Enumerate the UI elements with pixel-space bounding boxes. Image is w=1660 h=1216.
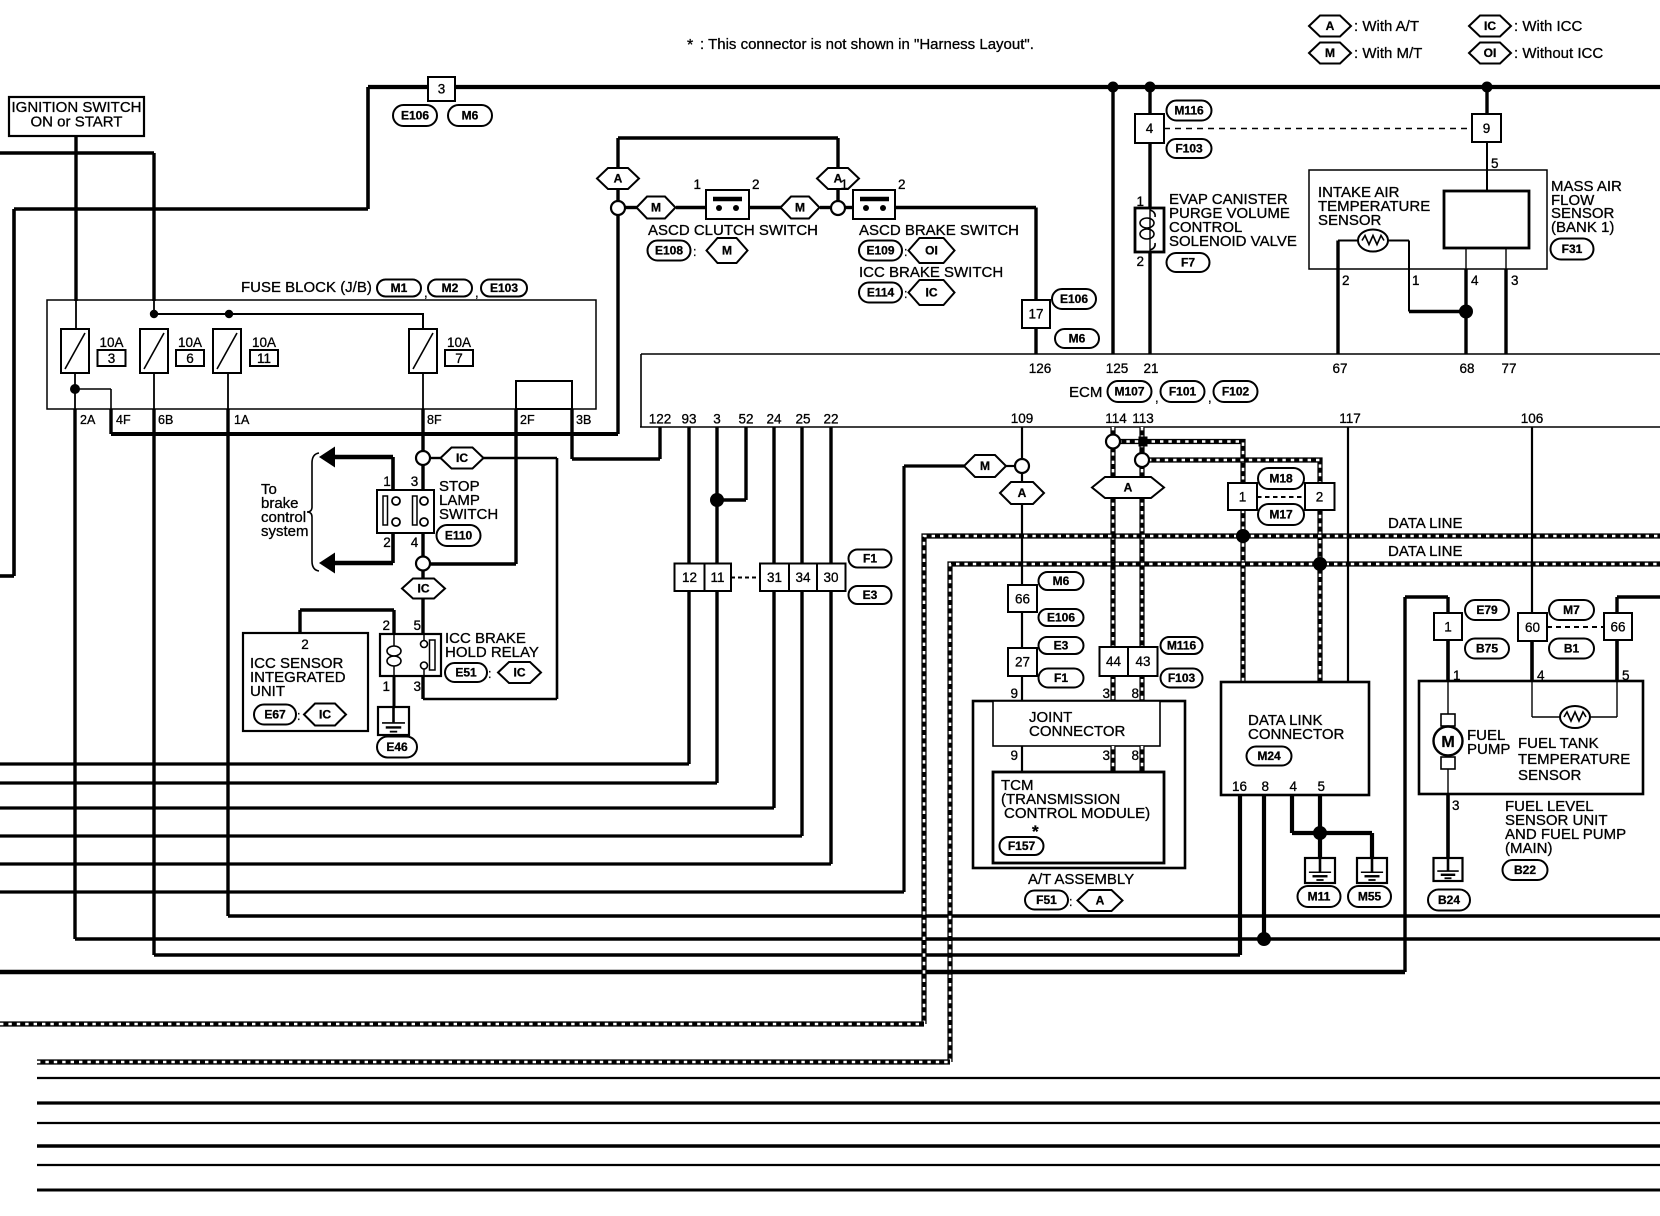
svg-text:M116: M116 <box>1174 104 1204 118</box>
svg-text:3: 3 <box>413 679 421 694</box>
hexagon A wide over 114/113 <box>1092 477 1164 498</box>
dashed link 60-66 <box>1547 626 1604 628</box>
connector box 12 <box>675 564 705 592</box>
hexagon IC for E51 <box>498 662 541 683</box>
svg-text:E67: E67 <box>264 708 286 722</box>
wire JC8 to TCM (shielded) <box>1139 746 1144 772</box>
svg-text:OI: OI <box>925 244 938 258</box>
wire IC hex to relay pin 5 <box>421 599 424 635</box>
connector box 1 (E79/B75) <box>1434 613 1462 640</box>
svg-text:F1: F1 <box>863 552 877 566</box>
svg-text:67: 67 <box>1332 361 1347 376</box>
svg-text:68: 68 <box>1459 361 1474 376</box>
svg-text:1: 1 <box>1444 620 1452 635</box>
wire box60 to fuel tank pin 4 <box>1530 641 1534 681</box>
svg-text:: With M/T: : With M/T <box>1354 45 1422 62</box>
svg-text:IC: IC <box>456 451 468 465</box>
svg-text:SOLENOID VALVE: SOLENOID VALVE <box>1169 233 1297 250</box>
svg-text:21: 21 <box>1143 361 1158 376</box>
hexagon IC stop lamp top <box>441 448 484 469</box>
svg-text:: This connector is not shown: : This connector is not shown in "Harnes… <box>700 36 1034 53</box>
crossover blob 113/114 <box>1139 437 1148 447</box>
svg-text:43: 43 <box>1135 654 1150 669</box>
svg-text:SENSOR: SENSOR <box>1518 767 1582 784</box>
IAT thermistor <box>1358 230 1388 252</box>
svg-text:M: M <box>651 201 661 215</box>
svg-text:16: 16 <box>1232 779 1247 794</box>
wire box27 to joint connector pin 9 <box>1021 676 1023 701</box>
wire IAT pin 1 joins MAF pin 4 <box>1388 240 1409 242</box>
connector oval E106 at 66 <box>1039 609 1084 626</box>
mass air flow sensor outer box <box>1309 170 1547 269</box>
svg-text:11: 11 <box>257 351 271 366</box>
svg-text:E3: E3 <box>863 588 878 602</box>
svg-text:5: 5 <box>413 618 421 633</box>
svg-text::: : <box>904 287 907 301</box>
svg-text:10A: 10A <box>447 335 471 350</box>
svg-text:E3: E3 <box>1054 639 1069 653</box>
svg-text:2F: 2F <box>520 413 535 427</box>
svg-text:E110: E110 <box>445 529 473 543</box>
EVAP canister purge volume control solenoid valve coil <box>1135 208 1164 252</box>
svg-text::: : <box>297 709 300 723</box>
ground M55 <box>1357 858 1387 883</box>
junction circle 109 <box>1015 459 1029 473</box>
svg-text:F7: F7 <box>1181 256 1195 270</box>
connector oval F1 at 27 <box>1039 669 1084 688</box>
svg-text:44: 44 <box>1106 654 1122 669</box>
fuel level sensor unit box <box>1419 681 1643 794</box>
connector box 30 <box>817 564 846 592</box>
wire MAF pin 3 to ECM 77 <box>1505 248 1507 269</box>
wire clutch switch pin2 to M hexagon <box>749 206 781 209</box>
wire bottom solid 1 <box>37 1077 1660 1079</box>
connector box 44 <box>1100 647 1129 676</box>
wire ECM 52 into pin3 wire <box>744 427 747 500</box>
wire feed to EVAP valve <box>1148 87 1151 114</box>
connector oval M2 <box>428 280 472 297</box>
connector oval F102 <box>1214 381 1258 402</box>
svg-text:DATA LINE: DATA LINE <box>1388 515 1462 532</box>
relay coil <box>393 634 395 646</box>
connector box 27 (E3/F1) <box>1008 648 1037 676</box>
connector box 31 <box>760 564 789 592</box>
connector oval E103 <box>481 280 527 297</box>
connector oval F157 <box>1000 837 1044 855</box>
connector oval M6 <box>448 105 492 126</box>
relay contact <box>423 634 425 641</box>
connector oval E109 <box>859 241 902 261</box>
svg-text:1: 1 <box>840 177 848 192</box>
wire from right edge to connector 66 <box>1617 595 1660 598</box>
hexagon M for E108 <box>707 238 748 263</box>
wire DATA LINE 1 (shielded) <box>924 536 1660 1024</box>
svg-text:IC: IC <box>319 708 331 722</box>
wire 1A to right edge y916 <box>228 914 1660 917</box>
connector box between 2F and 3B <box>516 381 572 409</box>
svg-text:4: 4 <box>1471 273 1479 288</box>
wire DATA LINE 2 (shielded) <box>950 564 1660 1062</box>
wire bottom solid 5 <box>37 1164 1660 1166</box>
svg-text:E46: E46 <box>386 740 408 754</box>
svg-text:F101: F101 <box>1169 385 1197 399</box>
svg-text:3: 3 <box>438 82 446 97</box>
svg-text:109: 109 <box>1011 411 1034 426</box>
svg-text:SWITCH: SWITCH <box>439 506 498 523</box>
svg-text:M18: M18 <box>1269 472 1293 486</box>
svg-text:B24: B24 <box>1438 893 1460 907</box>
svg-text:F31: F31 <box>1562 242 1583 256</box>
svg-text:10A: 10A <box>252 335 276 350</box>
svg-text:A: A <box>1326 19 1335 33</box>
wire ECM 3 wrap to left edge <box>715 427 718 783</box>
svg-text:31: 31 <box>767 570 782 585</box>
svg-text:8F: 8F <box>427 413 442 427</box>
connector box 34 <box>789 564 817 592</box>
svg-text:4: 4 <box>1146 121 1154 136</box>
ASCD brake switch E109 <box>853 190 895 219</box>
ground oval E46 <box>377 737 417 758</box>
hexagon A (with A/T) left <box>597 168 639 189</box>
svg-text:1: 1 <box>382 679 390 694</box>
svg-text::: : <box>693 245 696 259</box>
svg-text:*: * <box>687 37 693 54</box>
connector oval E114 <box>859 283 902 303</box>
hexagon A on 109 <box>1000 482 1044 504</box>
svg-text:TEMPERATURE: TEMPERATURE <box>1518 751 1630 768</box>
wire branch to 4F terminal <box>75 388 111 390</box>
hexagon A (with A/T) right <box>817 168 859 189</box>
junction circle 8F/stop lamp <box>416 451 430 465</box>
svg-text:2: 2 <box>1136 254 1144 269</box>
connector oval B1 <box>1549 639 1594 659</box>
svg-text:1: 1 <box>1412 273 1420 288</box>
svg-text:M7: M7 <box>1563 603 1580 617</box>
svg-text:F157: F157 <box>1008 839 1036 853</box>
connector oval E106 at 17 <box>1052 289 1096 309</box>
wire hexA to junction circle <box>616 189 619 201</box>
legend hexagon A = With A/T <box>1309 16 1351 37</box>
svg-text:A: A <box>1096 894 1105 908</box>
svg-text:3: 3 <box>1102 748 1110 763</box>
junction dot DATA LINE1 / DLC6 <box>1236 529 1250 543</box>
brace to brake control system <box>307 453 319 571</box>
wire 17 to ECM pin 126 <box>1034 328 1037 354</box>
svg-text:FUSE BLOCK (J/B): FUSE BLOCK (J/B) <box>241 279 372 296</box>
connector oval M116 <box>1167 101 1212 121</box>
hexagon OI for E109 <box>909 238 955 263</box>
wire ECM 113 (shielded) down <box>1139 427 1144 701</box>
hexagon A for F51 <box>1078 890 1123 911</box>
svg-text:3: 3 <box>1511 273 1519 288</box>
svg-text:M116: M116 <box>1167 639 1197 653</box>
fuse 10A #11 <box>213 329 241 373</box>
svg-text:E103: E103 <box>490 281 518 295</box>
svg-text:6: 6 <box>186 351 194 366</box>
connector oval F1 row <box>849 550 892 568</box>
connector oval B22 <box>1503 860 1548 880</box>
svg-text:,: , <box>1155 390 1159 405</box>
svg-text:3B: 3B <box>576 413 591 427</box>
svg-text::: : <box>904 245 907 259</box>
svg-text:27: 27 <box>1015 655 1030 670</box>
svg-text:2: 2 <box>383 535 391 550</box>
wire bottom solid 6 <box>37 1189 1660 1192</box>
wire 113 branch to DLC pin 14 <box>1148 460 1320 682</box>
svg-text:E106: E106 <box>1047 611 1075 625</box>
svg-text:2: 2 <box>1316 490 1324 505</box>
wire fuse7 output <box>422 373 424 409</box>
wire MAF pin 4 to ECM 68 <box>1465 248 1467 269</box>
svg-text:IC: IC <box>514 666 526 680</box>
wire brake switch pin2 to connector 17 <box>895 206 1036 209</box>
wire ECM 24 wrap to left edge <box>772 427 775 808</box>
wire ECM 25 wrap to left edge <box>800 427 803 836</box>
svg-text:F51: F51 <box>1036 893 1057 907</box>
connector oval E108 <box>648 241 691 261</box>
junction dot bus/fuse 11 <box>225 310 233 318</box>
connector oval M24 <box>1247 747 1292 766</box>
wire 3B to ECM pin 122 <box>570 409 573 459</box>
wire ECM 114 (shielded) down <box>1110 427 1115 701</box>
wire hexA to box 66 <box>1021 504 1023 585</box>
connector box 1 (M18/M17) <box>1228 483 1257 510</box>
svg-text:B75: B75 <box>1476 642 1498 656</box>
svg-text:30: 30 <box>823 570 838 585</box>
svg-text:ON or START: ON or START <box>31 114 123 131</box>
wire M hex to circle <box>1006 465 1015 467</box>
svg-text:11: 11 <box>710 570 724 585</box>
svg-text:E108: E108 <box>655 244 683 258</box>
legend hexagon M = With M/T <box>1309 43 1351 64</box>
svg-text:A: A <box>614 172 623 186</box>
wire stop lamp pin 4 to circle <box>421 533 424 557</box>
svg-text:M: M <box>1441 734 1454 751</box>
connector oval E106 <box>393 105 437 126</box>
svg-text:CONTROL MODULE): CONTROL MODULE) <box>1004 805 1150 822</box>
connector oval M116 at 44/43 <box>1161 637 1203 654</box>
wire fuse11 output <box>227 373 229 409</box>
wire main feed bus y=87 <box>368 85 1660 89</box>
svg-text:4: 4 <box>1289 779 1297 794</box>
connector oval F103 at 44/43 <box>1161 669 1203 688</box>
connector oval M107 <box>1108 381 1152 402</box>
wire circle to ASCD brake switch pin 1 <box>845 206 853 209</box>
svg-text:2: 2 <box>1342 273 1350 288</box>
svg-text:M6: M6 <box>1053 574 1070 588</box>
svg-text:3: 3 <box>411 474 419 489</box>
svg-text:E106: E106 <box>1060 292 1088 306</box>
wire feed to ECM pin 125 <box>1111 87 1114 354</box>
junction dot 3/52 <box>710 493 724 507</box>
svg-text:122: 122 <box>649 412 672 427</box>
wire DLC4 to ground branch <box>1290 795 1294 833</box>
svg-text:1A: 1A <box>234 413 250 427</box>
junction dot fuse3/4F <box>70 384 80 394</box>
svg-text:126: 126 <box>1029 361 1052 376</box>
svg-text:106: 106 <box>1521 411 1544 426</box>
svg-text:A: A <box>1124 481 1133 495</box>
connector oval E3 at 27 <box>1039 637 1084 654</box>
svg-text:(BANK 1): (BANK 1) <box>1551 219 1614 236</box>
wire ICC sensor pin2 to relay coil pin2 <box>300 608 394 611</box>
svg-text:F103: F103 <box>1168 671 1196 685</box>
svg-text:4F: 4F <box>116 413 131 427</box>
junction dot feed/EVAP <box>1145 82 1156 93</box>
wire stop lamp pin 1 arrow to brake control <box>391 457 395 490</box>
wire 4F to ASCD feed <box>109 409 112 434</box>
ground M11 <box>1305 858 1335 883</box>
wire stop lamp pin 2 arrow to brake control <box>391 533 395 563</box>
svg-text:HOLD RELAY: HOLD RELAY <box>445 644 539 661</box>
svg-text:7: 7 <box>455 351 463 366</box>
svg-text:M55: M55 <box>1358 890 1382 904</box>
connector oval F51 <box>1025 891 1068 910</box>
svg-text:: With ICC: : With ICC <box>1514 18 1583 35</box>
wire DLC8 to 2A line <box>1262 795 1266 939</box>
hexagon IC for E67 <box>304 704 346 726</box>
wire JC3 to TCM (shielded) <box>1110 746 1115 772</box>
svg-text:22: 22 <box>823 412 838 427</box>
wire stop lamp pin 3 <box>421 465 424 490</box>
fuse 10A #6 <box>140 329 168 373</box>
junction circle ASCD clutch feed <box>611 201 625 215</box>
junction circle on 114 <box>1106 435 1120 449</box>
svg-text:4: 4 <box>411 535 419 550</box>
svg-text:IC: IC <box>1484 19 1496 33</box>
svg-text:M: M <box>795 201 805 215</box>
wire IAT pin 2 to ECM 67 <box>1338 240 1358 242</box>
connector oval B75 <box>1465 639 1509 659</box>
svg-text:77: 77 <box>1501 361 1516 376</box>
svg-text:F102: F102 <box>1222 385 1250 399</box>
svg-text:3: 3 <box>1452 798 1460 813</box>
svg-text:3: 3 <box>713 412 721 427</box>
svg-text:M2: M2 <box>442 281 459 295</box>
svg-text:E106: E106 <box>401 109 429 123</box>
wire 2F drop <box>514 409 517 564</box>
connector box 4 (M116/F103) <box>1135 114 1164 143</box>
stop lamp switch box <box>377 490 434 533</box>
junction circle on 113 <box>1135 453 1149 467</box>
svg-text:1: 1 <box>383 474 391 489</box>
svg-text:M1: M1 <box>391 281 408 295</box>
svg-text:66: 66 <box>1610 620 1625 635</box>
ground E46 <box>378 707 409 735</box>
wire ECM 93 wrap to left edge <box>687 427 690 764</box>
svg-text:E79: E79 <box>1476 603 1498 617</box>
connector oval E110 <box>437 525 481 546</box>
svg-text:E114: E114 <box>867 286 895 300</box>
svg-text:,: , <box>475 285 479 300</box>
ground oval M55 <box>1348 886 1391 907</box>
connector oval M1 <box>377 280 421 297</box>
wire IC hex to relay pin 3 loop <box>484 457 558 459</box>
svg-text:114: 114 <box>1105 411 1127 426</box>
connector box 17 (E106/M6) <box>1022 300 1050 328</box>
svg-text:M: M <box>980 459 990 473</box>
svg-text:M107: M107 <box>1114 385 1144 399</box>
fuel pump motor <box>1447 681 1449 714</box>
wire bottom solid 4 <box>37 1144 1660 1148</box>
connector oval E3 row <box>849 586 892 604</box>
wire JC9 to TCM <box>1021 746 1023 772</box>
wire 2A to right edge y939 <box>75 937 1660 940</box>
TCM box <box>993 772 1164 863</box>
svg-text:8: 8 <box>1131 748 1139 763</box>
wire B75 feed thick y972 <box>0 970 1405 975</box>
svg-text:10A: 10A <box>178 335 202 350</box>
ICC brake hold relay box <box>380 634 441 676</box>
wire DLC16 down to 6B line <box>1238 795 1242 955</box>
svg-text::: : <box>1069 895 1072 909</box>
junction circle stop lamp/2F <box>416 557 430 571</box>
ICC sensor integrated unit box <box>243 633 368 731</box>
connector oval E79 <box>1465 600 1509 620</box>
connector box 11 <box>705 564 732 592</box>
wire box4 to EVAP coil pin 1 <box>1148 143 1151 208</box>
ground oval M11 <box>1298 886 1341 907</box>
connector oval M17 <box>1258 504 1304 525</box>
svg-text:F103: F103 <box>1175 142 1203 156</box>
svg-text:25: 25 <box>795 412 810 427</box>
svg-text:9: 9 <box>1483 121 1491 136</box>
wire box66 to box27 <box>1021 612 1023 648</box>
hexagon M (with M/T) clutch out <box>781 197 820 219</box>
connector box 60 (M7/B1) <box>1518 613 1547 641</box>
svg-text:M24: M24 <box>1257 749 1281 763</box>
hexagon IC for E114 <box>909 280 955 305</box>
junction dot IAT1/MAF4 <box>1459 305 1473 319</box>
fuse 10A #7 <box>409 329 437 373</box>
wire 6B drop <box>152 409 155 955</box>
svg-text:8: 8 <box>1131 686 1139 701</box>
svg-text:60: 60 <box>1525 620 1540 635</box>
svg-text:24: 24 <box>766 412 782 427</box>
wire fuse6 output <box>153 373 155 409</box>
connector box 66 (M6/E106) <box>1008 585 1037 612</box>
connector oval F31 <box>1551 239 1594 260</box>
svg-text:5: 5 <box>1491 156 1499 171</box>
hexagon M (with M/T) clutch in <box>637 197 676 219</box>
svg-text:A/T ASSEMBLY: A/T ASSEMBLY <box>1028 871 1134 888</box>
connector oval M6 at 66 <box>1039 572 1084 590</box>
connector oval M18 <box>1258 468 1304 489</box>
ignition switch box <box>9 97 144 136</box>
ground oval B24 <box>1428 890 1470 911</box>
data link connector box <box>1221 682 1369 795</box>
svg-text:34: 34 <box>795 570 811 585</box>
svg-text:8: 8 <box>1261 779 1269 794</box>
svg-text:A: A <box>1018 486 1027 500</box>
svg-text:52: 52 <box>738 412 753 427</box>
wire 117 ECM to DLC pin 7 <box>1347 427 1349 682</box>
svg-text:UNIT: UNIT <box>250 683 285 700</box>
wire relay pin1 to ground E46 <box>393 676 396 707</box>
junction dot bus/6B <box>150 310 158 318</box>
connector box 2 (M18/M17) <box>1305 483 1335 510</box>
legend hexagon IC = With ICC <box>1469 16 1511 37</box>
svg-text:6B: 6B <box>158 413 173 427</box>
stop lamp switch contacts <box>383 496 388 525</box>
wire box66 to fuel tank pin 5 <box>1615 640 1619 681</box>
svg-text:117: 117 <box>1339 411 1361 426</box>
ASCD clutch switch E108 <box>706 190 749 219</box>
svg-text:E51: E51 <box>455 666 477 680</box>
svg-text:93: 93 <box>681 412 696 427</box>
svg-text:3: 3 <box>1102 686 1110 701</box>
wire feed drop to left edge <box>366 87 370 209</box>
